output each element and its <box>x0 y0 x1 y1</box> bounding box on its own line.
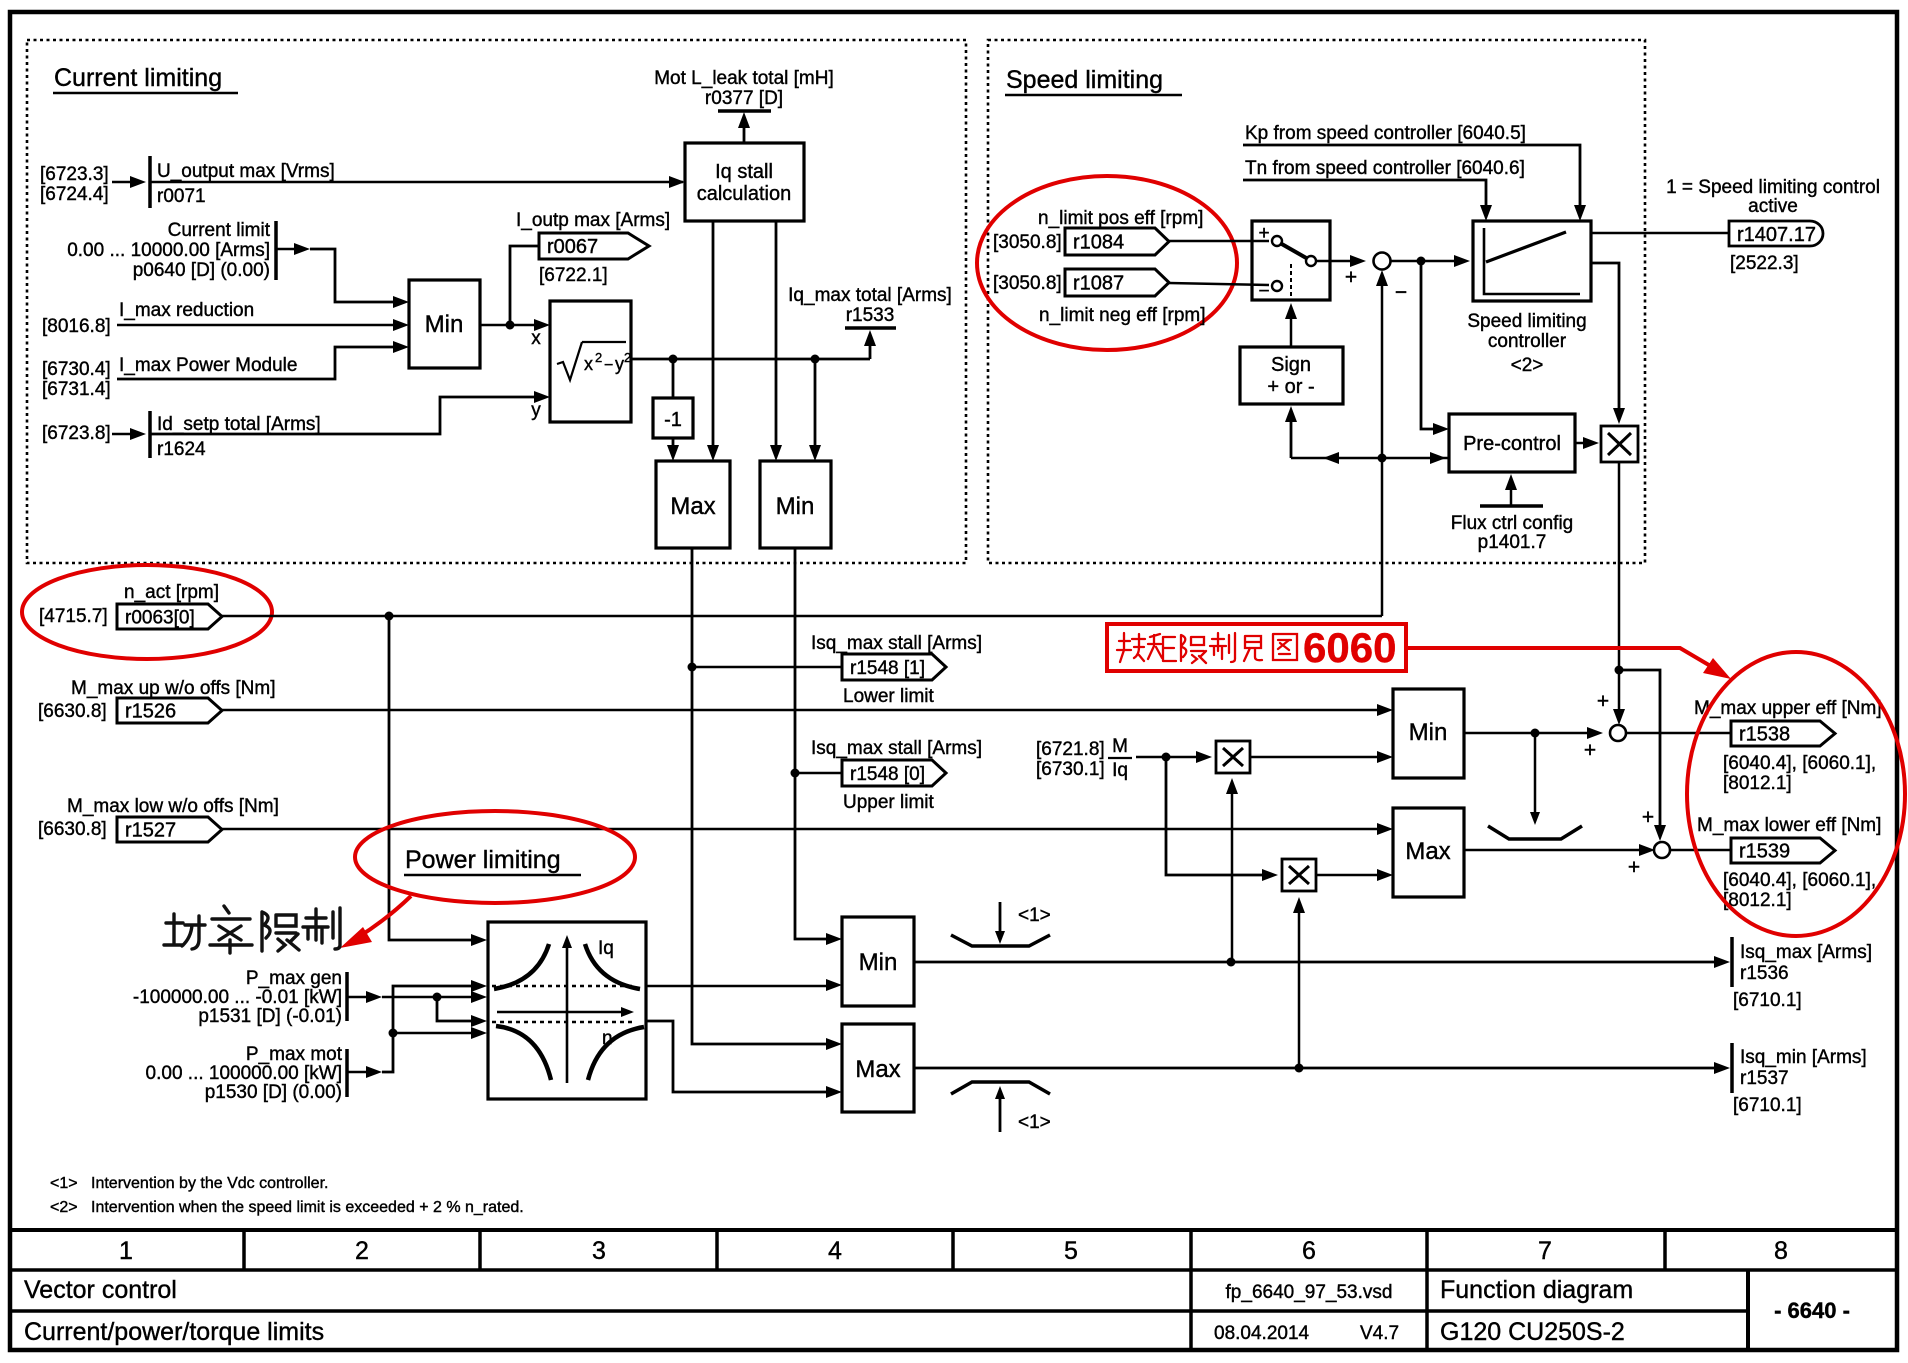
svg-text:active: active <box>1748 196 1798 217</box>
block sqrt(x2-y2) <box>550 301 631 422</box>
input Flux ctrl config p1401.7 <box>1510 478 1513 506</box>
limiter symbol upper <1> <box>951 935 1050 946</box>
multiplier X2 <box>1282 859 1316 891</box>
wire M/Iq to X1 <box>1136 756 1204 759</box>
red arrow to Chinese note <box>357 896 411 938</box>
wire P_max gen to inputs <box>437 996 476 999</box>
svg-text:+: + <box>1584 739 1596 762</box>
svg-text:8: 8 <box>1774 1237 1788 1265</box>
svg-text:Upper limit: Upper limit <box>843 792 935 813</box>
svg-text:Pre-control: Pre-control <box>1463 433 1561 455</box>
wire to r1548[1] <box>692 666 842 669</box>
svg-text:Intervention when the speed li: Intervention when the speed limit is exc… <box>91 1199 524 1216</box>
connector r1548[0] <box>842 760 946 786</box>
svg-text:Power limiting: Power limiting <box>405 846 561 874</box>
red arrow from note to outputs <box>1406 648 1719 671</box>
svg-text:+ or -: + or - <box>1267 376 1314 398</box>
wire n_act down to power limiting <box>389 616 476 940</box>
summation node r1538 <box>1610 725 1626 741</box>
block Iq stall calculation <box>685 143 804 221</box>
wire X1 bottom input <box>1231 784 1234 962</box>
svg-text:[6722.1]: [6722.1] <box>539 265 608 286</box>
wire P_max mot <box>347 1071 374 1074</box>
svg-text:r1538: r1538 <box>1739 724 1790 746</box>
wire Max output down <box>692 548 834 1044</box>
red ellipse n_act <box>22 565 272 659</box>
svg-text:Current limit: Current limit <box>168 220 271 241</box>
svg-text:Vector control: Vector control <box>24 1276 177 1304</box>
svg-text:fp_6640_97_53.vsd: fp_6640_97_53.vsd <box>1226 1282 1393 1303</box>
wire Min2 output down <box>795 548 834 939</box>
svg-text:r0071: r0071 <box>157 186 206 207</box>
svg-text:Speed limiting: Speed limiting <box>1006 66 1163 94</box>
svg-text:<2>: <2> <box>1511 355 1544 376</box>
svg-text:r1548 [0]: r1548 [0] <box>850 764 925 785</box>
wire M/Iq branch to X2 <box>1166 757 1270 875</box>
wire sqrt line to Min <box>814 359 817 457</box>
svg-text:Iq: Iq <box>1112 760 1128 781</box>
wire U_output to Iq stall <box>150 181 683 184</box>
svg-text:[6630.8]: [6630.8] <box>38 701 107 722</box>
red ellipse Power limiting <box>355 811 635 903</box>
svg-text:y: y <box>615 354 624 374</box>
svg-text:[3050.8]: [3050.8] <box>993 232 1062 253</box>
Current limiting section box <box>27 40 966 563</box>
svg-text:M: M <box>1112 736 1128 757</box>
svg-text:<1>: <1> <box>50 1175 78 1192</box>
wire X2 output to Max <box>1316 874 1385 877</box>
svg-text:Max: Max <box>670 493 715 520</box>
wire bidirectional precontrol line <box>1291 457 1449 460</box>
output Mot L_leak total r0377 <box>743 118 746 143</box>
svg-text:[6710.1]: [6710.1] <box>1733 990 1802 1011</box>
svg-text:4: 4 <box>828 1237 842 1265</box>
limiter symbol lower <1> <box>951 1082 1050 1094</box>
wire Sign to switch <box>1290 309 1293 347</box>
svg-text:Speed limiting: Speed limiting <box>1467 311 1586 332</box>
wire to -1 box <box>672 359 675 398</box>
svg-text:- 6640 -: - 6640 - <box>1774 1298 1850 1323</box>
connector r1538 <box>1731 721 1835 746</box>
svg-text:[3050.8]: [3050.8] <box>993 273 1062 294</box>
limiter symbol between <box>1488 826 1582 839</box>
wire to r1538 <box>1626 732 1731 735</box>
multiplier X1 <box>1216 741 1250 773</box>
block Min middle <box>842 917 914 1006</box>
svg-text:Flux ctrl config: Flux ctrl config <box>1451 513 1573 534</box>
switch lever <box>1280 243 1308 259</box>
svg-text:M_max lower eff [Nm]: M_max lower eff [Nm] <box>1697 815 1881 836</box>
summation node speed limiting <box>1374 253 1391 270</box>
svg-text:Current limiting: Current limiting <box>54 64 222 92</box>
wire I_max reduction to Min <box>117 324 401 327</box>
svg-text:n_limit pos eff [rpm]: n_limit pos eff [rpm] <box>1038 208 1203 229</box>
svg-text:2: 2 <box>355 1237 369 1265</box>
svg-text:[6730.1]: [6730.1] <box>1036 759 1105 780</box>
wire P_max gen <box>347 996 374 999</box>
connector r1407.17 <box>1729 221 1823 246</box>
svg-text:[6040.4], [6060.1],: [6040.4], [6060.1], <box>1723 753 1876 774</box>
svg-text:Id_setp total [Arms]: Id_setp total [Arms] <box>157 414 321 435</box>
svg-text:Iq stall: Iq stall <box>715 161 773 183</box>
svg-text:p1531 [D] (-0.01): p1531 [D] (-0.01) <box>198 1006 342 1027</box>
block Max right <box>1393 808 1464 897</box>
svg-text:+: + <box>1642 806 1654 829</box>
svg-text:2: 2 <box>624 350 631 365</box>
svg-text:[6724.4]: [6724.4] <box>40 184 109 205</box>
svg-text:I_max reduction: I_max reduction <box>119 300 254 321</box>
svg-text:M_max upper eff [Nm]: M_max upper eff [Nm] <box>1694 698 1882 719</box>
svg-text:Isq_min [Arms]: Isq_min [Arms] <box>1740 1047 1867 1068</box>
wire I_max Power Module to Min <box>117 347 401 379</box>
svg-text:r1537: r1537 <box>1740 1068 1789 1089</box>
wire branch down to limiter <box>1534 733 1537 817</box>
svg-text:I_max Power Module: I_max Power Module <box>119 355 297 376</box>
wire Max middle output <box>914 1067 1722 1070</box>
svg-text:<1>: <1> <box>1018 1112 1051 1133</box>
svg-text:r0377 [D]: r0377 [D] <box>705 88 783 109</box>
svg-text:5: 5 <box>1064 1237 1078 1265</box>
switch pin top <box>1272 236 1282 246</box>
svg-text:y: y <box>531 400 541 421</box>
svg-text:p1530 [D] (0.00): p1530 [D] (0.00) <box>205 1082 342 1103</box>
multiplier X speed limiting <box>1601 426 1638 462</box>
svg-text:V4.7: V4.7 <box>1360 1323 1399 1344</box>
block Speed limiting controller <box>1473 221 1591 301</box>
svg-text:6: 6 <box>1302 1237 1316 1265</box>
block Min2 current limit <box>760 461 831 548</box>
wire to r1548[0] <box>795 772 842 775</box>
red note box torque limit see 6060 <box>1107 624 1406 671</box>
svg-text:[6731.4]: [6731.4] <box>42 379 111 400</box>
wire switch output to summator <box>1316 260 1358 263</box>
svg-text:Min: Min <box>776 493 815 520</box>
wire to r0067 <box>510 246 539 325</box>
svg-text:Kp from speed controller [6040: Kp from speed controller [6040.5] <box>1245 123 1526 144</box>
svg-text:7: 7 <box>1538 1237 1552 1265</box>
svg-text:Min: Min <box>425 311 464 338</box>
red ellipse torque outputs <box>1687 652 1905 936</box>
output Iq_max total r1533 <box>869 336 872 359</box>
svg-text:r0067: r0067 <box>547 236 598 258</box>
wire Id_setp to sqrt y input <box>150 397 542 434</box>
title block grid <box>10 1228 1897 1232</box>
wire P_max mot to input 4 <box>393 1032 476 1035</box>
svg-text:[4715.7]: [4715.7] <box>39 606 108 627</box>
svg-text:Isq_max [Arms]: Isq_max [Arms] <box>1740 942 1872 963</box>
svg-text:r1539: r1539 <box>1739 841 1790 863</box>
wire X speed-limiting down to summators <box>1618 462 1621 719</box>
svg-text:1 = Speed limiting control: 1 = Speed limiting control <box>1666 177 1880 198</box>
svg-text:x: x <box>531 328 541 349</box>
connector r1539 <box>1731 838 1835 863</box>
switch pin bottom <box>1272 281 1282 291</box>
svg-text:Function diagram: Function diagram <box>1440 1276 1633 1304</box>
svg-text:r1527: r1527 <box>125 820 176 842</box>
wire sqrt output <box>631 358 870 361</box>
svg-text:Lower limit: Lower limit <box>843 686 935 707</box>
svg-text:[6630.8]: [6630.8] <box>38 819 107 840</box>
output Isq_min r1537 <box>1730 1043 1734 1093</box>
svg-text:[8012.1]: [8012.1] <box>1723 773 1792 794</box>
svg-text:p0640 [D] (0.00): p0640 [D] (0.00) <box>133 260 270 281</box>
wire controller to r1407 <box>1591 232 1729 235</box>
svg-text:+: + <box>1258 223 1269 244</box>
svg-text:+: + <box>1628 856 1640 879</box>
svg-text:3: 3 <box>592 1237 606 1265</box>
connector r1548[1] <box>842 654 946 680</box>
svg-text:Min: Min <box>1409 719 1448 746</box>
svg-text:r1536: r1536 <box>1740 963 1789 984</box>
wire Min output to sqrt x input <box>480 324 542 327</box>
wire n_act feedback up <box>1381 274 1384 616</box>
svg-text:controller: controller <box>1488 331 1567 352</box>
svg-text:[6723.3]: [6723.3] <box>40 164 109 185</box>
svg-text:-1: -1 <box>664 409 682 431</box>
wire -1 to Max <box>672 438 675 457</box>
wire Current limit to Min <box>310 249 401 302</box>
wire to r1539 <box>1670 849 1731 852</box>
wire summator branch to Pre-control <box>1421 261 1441 429</box>
svg-text:<1>: <1> <box>1018 905 1051 926</box>
wire Min middle output <box>914 961 1722 964</box>
red ellipse n_limit inputs <box>977 176 1237 350</box>
svg-text:6060: 6060 <box>1303 624 1396 671</box>
wire Iq stall output right <box>775 221 778 457</box>
svg-text:p1401.7: p1401.7 <box>1478 532 1547 553</box>
svg-text:-100000.00 ... -0.01 [kW]: -100000.00 ... -0.01 [kW] <box>133 987 342 1008</box>
Speed limiting section box <box>988 40 1645 563</box>
svg-text:Max: Max <box>1405 838 1450 865</box>
svg-text:P_max mot: P_max mot <box>246 1044 343 1065</box>
block Max middle <box>842 1024 914 1112</box>
svg-text:[6730.4]: [6730.4] <box>42 359 111 380</box>
wire power block upper output <box>646 985 834 988</box>
wire summator to controller <box>1391 260 1462 263</box>
svg-text:[2522.3]: [2522.3] <box>1730 253 1799 274</box>
wire r1527 to Max <box>222 828 1385 831</box>
block Pre-control <box>1449 414 1575 472</box>
svg-text:n_act [rpm]: n_act [rpm] <box>124 582 219 603</box>
wire X2 bottom input <box>1298 903 1301 1068</box>
svg-text:U_output max [Vrms]: U_output max [Vrms] <box>157 161 335 182</box>
output Isq_max r1536 <box>1730 937 1734 987</box>
connector r0067 <box>539 233 649 259</box>
svg-text:Intervention by the Vdc contro: Intervention by the Vdc controller. <box>91 1175 328 1192</box>
wire X1 output to Min <box>1250 756 1385 759</box>
svg-text:r1526: r1526 <box>125 701 176 723</box>
svg-text:M_max low w/o offs [Nm]: M_max low w/o offs [Nm] <box>67 796 279 817</box>
svg-text:P_max gen: P_max gen <box>246 968 342 989</box>
svg-text:Iq_max total [Arms]: Iq_max total [Arms] <box>788 285 952 306</box>
svg-text:G120 CU250S-2: G120 CU250S-2 <box>1440 1318 1625 1346</box>
wire r1087 to switch <box>1169 283 1269 285</box>
block Min right <box>1393 689 1464 778</box>
svg-text:r1624: r1624 <box>157 439 206 460</box>
svg-text:Isq_max stall [Arms]: Isq_max stall [Arms] <box>811 738 982 759</box>
svg-text:08.04.2014: 08.04.2014 <box>1214 1323 1310 1344</box>
handwritten note gong lv xian zhi (power limit) <box>164 906 340 953</box>
wire Iq stall output left <box>712 221 715 457</box>
svg-text:[6723.8]: [6723.8] <box>42 423 111 444</box>
svg-text:2: 2 <box>595 350 602 365</box>
block Sign <box>1240 347 1343 404</box>
wire n_act <box>222 615 1382 618</box>
svg-text:I_outp max [Arms]: I_outp max [Arms] <box>516 210 670 231</box>
svg-text:Current/power/torque limits: Current/power/torque limits <box>24 1318 324 1346</box>
wire controller to X multiplier <box>1591 263 1619 418</box>
wire feedback to Sign <box>1290 410 1293 458</box>
svg-text:[6721.8]: [6721.8] <box>1036 739 1105 760</box>
svg-text:r1084: r1084 <box>1073 232 1124 254</box>
wire r1084 to switch <box>1169 240 1269 243</box>
svg-text:+: + <box>1345 266 1357 289</box>
svg-text:r1087: r1087 <box>1073 273 1124 295</box>
wire Max right output to summator <box>1464 849 1647 852</box>
block Min current limit <box>409 280 480 368</box>
svg-text:0.00 ... 10000.00 [Arms]: 0.00 ... 10000.00 [Arms] <box>67 240 270 261</box>
svg-text:r1407.17: r1407.17 <box>1737 224 1816 246</box>
svg-text:[8016.8]: [8016.8] <box>42 316 111 337</box>
svg-text:+: + <box>1597 690 1609 713</box>
wire power block lower output <box>646 1021 834 1092</box>
switch selector box <box>1252 221 1330 300</box>
svg-text:Min: Min <box>859 949 898 976</box>
svg-text:r0063[0]: r0063[0] <box>125 608 195 629</box>
svg-text:Iq: Iq <box>598 938 614 959</box>
wire Pre-control output to multiplier <box>1575 442 1591 445</box>
svg-text:0.00 ... 100000.00 [kW]: 0.00 ... 100000.00 [kW] <box>146 1063 342 1084</box>
svg-text:Mot L_leak total [mH]: Mot L_leak total [mH] <box>654 68 834 89</box>
svg-text:r1533: r1533 <box>846 305 895 326</box>
summation node r1539 <box>1654 842 1670 858</box>
wire Min right output to summator <box>1464 732 1595 735</box>
svg-text:<2>: <2> <box>50 1199 78 1216</box>
svg-text:−: − <box>1395 281 1407 304</box>
svg-text:r1548 [1]: r1548 [1] <box>850 658 925 679</box>
svg-text:1: 1 <box>119 1237 133 1265</box>
svg-text:Sign: Sign <box>1271 354 1311 376</box>
svg-text:Max: Max <box>855 1056 900 1083</box>
block power limiting characteristic <box>488 922 646 1099</box>
svg-text:n_limit neg eff [rpm]: n_limit neg eff [rpm] <box>1039 305 1206 326</box>
svg-text:calculation: calculation <box>697 183 792 205</box>
svg-text:Tn from speed controller [6040: Tn from speed controller [6040.6] <box>1245 158 1525 179</box>
block Max current limit <box>656 461 730 548</box>
block -1 <box>653 398 693 438</box>
svg-text:−: − <box>604 357 613 374</box>
svg-text:[6040.4], [6060.1],: [6040.4], [6060.1], <box>1723 870 1876 891</box>
svg-text:M_max up w/o offs [Nm]: M_max up w/o offs [Nm] <box>71 678 276 699</box>
svg-text:Isq_max stall [Arms]: Isq_max stall [Arms] <box>811 633 982 654</box>
svg-text:x: x <box>584 354 593 374</box>
switch dashed actuator line <box>1290 264 1292 300</box>
wire r1526 to Min <box>222 709 1385 712</box>
svg-text:[6710.1]: [6710.1] <box>1733 1095 1802 1116</box>
svg-text:−: − <box>1258 281 1269 302</box>
